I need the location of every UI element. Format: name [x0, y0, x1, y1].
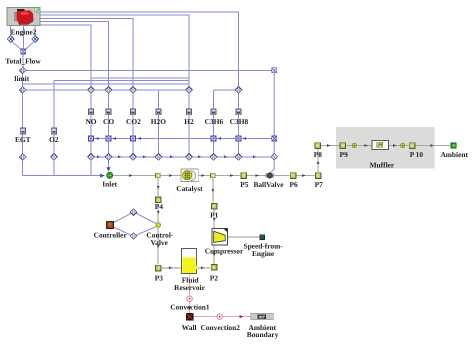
svg-text:P6: P6 — [289, 180, 298, 189]
thermal line reservoir down to Convection1 — [189, 275, 191, 296]
actuator node C3H8 — [236, 136, 241, 141]
arrow left bus y138.5 segment 2 — [113, 137, 116, 140]
wire C3H6 column vertical — [213, 90, 215, 157]
wire CO2 column vertical lower — [132, 87, 134, 158]
port P3 — [156, 265, 162, 271]
wire actuator row bus y138.5 — [91, 138, 274, 140]
thermal line Convection1 down to Wall — [189, 302, 191, 313]
svg-text:CO: CO — [103, 117, 114, 126]
svg-text:H2: H2 — [184, 117, 194, 126]
Inlet node — [107, 172, 113, 178]
svg-text:Engine2: Engine2 — [11, 28, 37, 37]
controller link upper right diagonal — [136, 213, 156, 223]
wire right column vertical x274 — [270, 70, 274, 173]
sensor diamond engine left — [7, 36, 14, 43]
Control-Valve node — [156, 223, 161, 228]
main flow pipe P8 to P9 — [321, 145, 339, 147]
main flow pipe P5 to P6 — [247, 175, 289, 177]
svg-text:Engine: Engine — [252, 249, 275, 258]
Engine2 block — [7, 8, 40, 26]
actuator node NO — [89, 136, 94, 141]
monitor icon C3H6 — [211, 109, 216, 115]
sensor diamond NO bottom — [88, 154, 95, 161]
arrow left bus y138.5 segment 1 — [95, 137, 98, 140]
svg-text:P8: P8 — [314, 150, 323, 159]
link line P3 to reservoir — [162, 267, 182, 269]
flow arrow 1 — [129, 174, 132, 177]
arrow right bus y156.8 seg 3 — [143, 155, 146, 158]
wire left sensor diagonal to Total_Flow — [12, 42, 22, 51]
svg-text:Valve: Valve — [151, 238, 169, 247]
sensor diamond O2 bottom — [51, 154, 58, 161]
svg-text:P2: P2 — [210, 273, 219, 282]
main flow pipe Inlet to Catalyst — [113, 175, 181, 177]
svg-text:P9: P9 — [340, 150, 349, 159]
svg-text:Controller: Controller — [94, 231, 128, 240]
svg-text:Reservoir: Reservoir — [174, 283, 205, 292]
sensor diamond CO top — [105, 87, 112, 94]
Wall block — [186, 313, 193, 320]
Muffler subassembly background — [336, 127, 435, 169]
sensor diamond C3H6 bottom — [210, 154, 217, 161]
sensor diamond H2 bottom — [186, 154, 193, 161]
sensor diamond engine right — [32, 36, 39, 43]
wire right sensor diagonal to Total_Flow — [25, 42, 34, 51]
arrow right bus y156.8 seg 7 — [253, 155, 256, 158]
arrow right bus y156.8 seg 6 — [224, 155, 227, 158]
node limit-bus right end — [272, 68, 277, 73]
wire O2 column vertical — [53, 81, 55, 176]
wire C3H6 corner segment y90.2 — [214, 89, 239, 91]
monitor icon H2 — [186, 109, 191, 115]
actuator node bus right end — [272, 136, 277, 141]
wire sensor row bus y156.8 — [91, 156, 274, 158]
wire mid bus y84 — [23, 83, 189, 85]
svg-text:P3: P3 — [155, 273, 164, 282]
Ambient Boundary block — [251, 313, 274, 319]
wire Total_Flow down to limit — [22, 54, 24, 68]
link line reservoir to P2 — [198, 267, 211, 269]
link line P4 down to Control-Valve — [157, 203, 159, 222]
link arrow to P4 — [157, 186, 160, 189]
arrow left bus y138.5 segment 3 — [138, 137, 141, 140]
flow arrow up to P8 — [317, 161, 320, 164]
port P6 — [290, 173, 296, 179]
Convection1 node — [187, 296, 192, 301]
svg-text:INT: INT — [259, 314, 266, 319]
svg-text:Boundary: Boundary — [247, 330, 279, 339]
port P4 — [156, 197, 162, 203]
wire sensor row bus y89.8 — [23, 89, 189, 91]
svg-text:O2: O2 — [49, 135, 59, 144]
arrow right bus y156.8 seg 1 — [97, 155, 100, 158]
link arrow to P3 — [157, 245, 160, 248]
svg-text:Wall: Wall — [182, 323, 197, 332]
wire NO column vertical lower — [90, 87, 92, 176]
link arrow to valve — [157, 211, 160, 214]
svg-text:P4: P4 — [155, 202, 164, 211]
flow arrow 9 — [393, 144, 396, 147]
node Total_Flow — [21, 49, 26, 54]
wire H2 column vertical lower — [188, 87, 190, 158]
wire engine output 2 to H2 column — [40, 15, 189, 86]
svg-text:P5: P5 — [240, 180, 249, 189]
wire mid bus y80.7 — [54, 80, 189, 82]
flow arrow 8 — [365, 144, 368, 147]
muffler internal pipe element — [372, 140, 389, 149]
wire limit horizontal bus y70 — [24, 69, 274, 71]
port P7 — [315, 173, 321, 179]
port P1 — [211, 203, 217, 209]
link line Control-Valve down to P3 — [157, 228, 159, 264]
link arrow to reservoir — [169, 266, 172, 269]
flow arrow 5 — [256, 174, 259, 177]
sensor diamond CO bottom — [105, 154, 112, 161]
monitor icon NO — [88, 109, 93, 115]
flow arrow 2 — [169, 174, 172, 177]
link arrow to P2 — [213, 253, 216, 256]
svg-text:Compressor: Compressor — [205, 246, 244, 255]
arrow right bus y156.8 seg 5 — [198, 155, 201, 158]
monitor icon EGT — [20, 128, 25, 134]
port P9 — [340, 143, 346, 149]
link diamond lower — [130, 233, 137, 240]
monitor icon CO2 — [130, 109, 135, 115]
wire engine right port down to sensor — [34, 26, 36, 37]
node limit — [19, 67, 26, 74]
link line compressor to speed sensor — [228, 236, 260, 238]
Speed-from-Engine sensor — [260, 235, 265, 240]
main flow pipe Catalyst to P5 — [198, 175, 240, 177]
actuator node C3H6 — [211, 136, 216, 141]
sensor diamond C3H8 bottom — [235, 154, 242, 161]
flow arrow 4 — [230, 174, 233, 177]
wire EGT column vertical — [22, 72, 24, 176]
svg-text:Convection2: Convection2 — [200, 323, 240, 332]
monitor icon H2O — [156, 109, 161, 115]
svg-text:Catalyst: Catalyst — [176, 184, 203, 193]
svg-text:Convection1: Convection1 — [170, 303, 210, 312]
controller link lower right diagonal — [136, 227, 156, 235]
sensor diamond CO2 bottom — [130, 154, 137, 161]
main flow pipe P10 to Ambient — [416, 145, 451, 147]
thermal line Wall to Convection2 — [193, 316, 216, 318]
main flow pipe P6 to P7 — [297, 175, 315, 177]
Fluid Reservoir block — [181, 249, 198, 274]
link line catalyst-out down to P1 — [212, 178, 214, 203]
port P10 — [409, 143, 415, 149]
link line flow-split down to P4 — [157, 178, 159, 196]
svg-text:C3H8: C3H8 — [230, 117, 249, 126]
controller link lower left diagonal — [114, 227, 132, 235]
sensor diamond H2O bottom — [155, 154, 162, 161]
link line Compressor down to P2 — [213, 245, 215, 264]
svg-text:Inlet: Inlet — [102, 180, 117, 189]
svg-text:NO: NO — [85, 117, 96, 126]
link diamond upper — [130, 209, 137, 216]
port P8 — [315, 143, 321, 149]
link square catalyst-out — [211, 173, 216, 178]
Engine2 status check icon — [35, 8, 39, 12]
svg-text:BallValve: BallValve — [253, 180, 284, 189]
port Ambient — [451, 143, 456, 148]
thermal arrow into Wall — [188, 307, 191, 310]
svg-text:EGT: EGT — [15, 135, 31, 144]
wire engine output 3 to CO2 column — [40, 18, 133, 86]
sensor diamond NO top — [88, 87, 95, 94]
arrow down into Inlet from CO column — [106, 167, 110, 171]
actuator node CO — [106, 136, 111, 141]
link arrow to compressor — [213, 218, 216, 221]
svg-text:Muffler: Muffler — [370, 161, 395, 170]
monitor icon CO — [106, 109, 111, 115]
flow arrow 7 — [327, 144, 330, 147]
controller link upper left diagonal — [114, 213, 132, 223]
sensor diamond H2 top — [186, 87, 193, 94]
wire H2O column vertical — [158, 90, 160, 157]
link circle muffler right — [401, 143, 405, 147]
wire mid bus y78 — [91, 77, 189, 79]
sensor diamond C3H8 top — [235, 87, 242, 94]
link square flow-split — [156, 173, 161, 178]
wire engine left port down to sensor — [10, 26, 12, 37]
svg-text:CO2: CO2 — [126, 117, 141, 126]
link arrow into P2 — [201, 266, 204, 269]
main flow pipe P7 up to P8 — [317, 149, 319, 172]
arrow right bus y156.8 seg 4 — [170, 155, 173, 158]
port P5 — [241, 173, 247, 179]
flow arrow 10 — [431, 144, 434, 147]
arrow left bus y138.5 segment 4 — [218, 137, 221, 140]
thermal line Convection2 to Ambient Boundary — [223, 316, 251, 318]
svg-text:limit: limit — [14, 74, 29, 83]
port P2 — [211, 265, 217, 271]
Controller block — [107, 222, 114, 229]
sensor diamond EGT bottom — [19, 154, 26, 161]
monitor icon C3H8 — [236, 109, 241, 115]
link line P1 down to Compressor — [213, 210, 215, 229]
flow arrow 6 — [302, 174, 305, 177]
svg-text:P1: P1 — [210, 210, 219, 219]
actuator node CO2 — [131, 136, 136, 141]
arrow left bus y138.5 segment 5 — [243, 137, 246, 140]
svg-text:C3H6: C3H6 — [205, 117, 224, 126]
wire engine output 4 to CO column — [40, 22, 109, 87]
Compressor block — [212, 229, 228, 245]
main flow pipe muffler element to P10 — [389, 145, 409, 147]
wire engine output 1 to C3H8 column — [40, 12, 239, 87]
Convection2 node — [217, 314, 222, 319]
BallValve — [266, 173, 274, 178]
wire engine center down to Total_Flow — [22, 26, 24, 50]
Catalyst block — [181, 169, 198, 182]
wire engine output 5 to NO column — [40, 25, 91, 87]
link circle muffler left — [352, 143, 356, 147]
svg-text:Total_Flow: Total_Flow — [5, 56, 41, 65]
svg-text:Ambient: Ambient — [440, 150, 468, 159]
wire C3H8 column vertical lower — [238, 87, 240, 158]
sensor diamond CO2 top — [130, 87, 137, 94]
flow arrow 3 — [202, 174, 205, 177]
link arrow to P1 — [212, 189, 215, 192]
svg-text:P7: P7 — [315, 180, 324, 189]
wire bottom-left gather bus to Inlet — [23, 175, 105, 177]
wire CO column vertical lower — [108, 87, 110, 172]
thermal arrow into Ambient Boundary — [240, 315, 244, 318]
monitor icon O2 — [51, 128, 56, 134]
arrow into Inlet — [100, 174, 104, 178]
svg-text:P 10: P 10 — [410, 150, 424, 159]
sensor diamond EGT top — [19, 87, 26, 94]
arrow right bus y156.8 seg 2 — [118, 155, 121, 158]
svg-text:H2O: H2O — [151, 117, 166, 126]
sensor diamond right column — [271, 154, 278, 161]
main flow pipe P9 to muffler element — [346, 145, 371, 147]
